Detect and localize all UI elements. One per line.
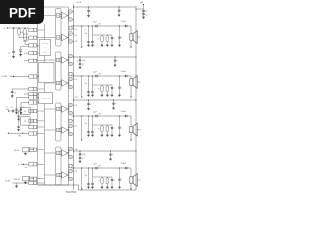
- svg-text:C1: C1: [145, 11, 147, 13]
- svg-text:C: C: [77, 155, 78, 157]
- svg-text:10µ: 10µ: [85, 33, 88, 35]
- capacitor C2: [142, 14, 147, 19]
- svg-text:PROTECTION: PROTECTION: [41, 43, 48, 45]
- supply +V left entry: [3, 27, 14, 30]
- capacitor series 2200uF channel 2: [121, 71, 129, 77]
- svg-text:2.2µF: 2.2µF: [93, 163, 97, 165]
- svg-text:B: B: [58, 175, 59, 177]
- svg-text:C2: C2: [145, 14, 147, 16]
- svg-text:47K: 47K: [74, 79, 77, 81]
- capacitor supply filter channel 2: [77, 56, 86, 68]
- svg-text:47R: 47R: [74, 105, 77, 107]
- op-amp A5 half-bridge: [44, 103, 73, 115]
- feedback drop channel 4: [81, 167, 82, 189]
- op-amp A4 half-bridge: [44, 72, 73, 89]
- svg-text:R: R: [98, 129, 99, 131]
- svg-text:C: C: [85, 30, 86, 32]
- svg-text:C4: C4: [14, 92, 16, 94]
- svg-text:SGN: SGN: [74, 149, 77, 151]
- svg-text:47K: 47K: [74, 29, 77, 31]
- svg-text:2200µF: 2200µF: [121, 71, 126, 73]
- op-amp A3 half-bridge: [44, 54, 73, 66]
- svg-text:C6: C6: [23, 107, 25, 109]
- svg-text:10µF: 10µF: [82, 154, 85, 156]
- svg-text:B: B: [58, 109, 59, 111]
- speaker LS3: [130, 123, 142, 136]
- svg-text:S-GND: S-GND: [5, 181, 11, 183]
- input coupling 1: [17, 107, 33, 120]
- speaker feed channel 4: [130, 168, 131, 190]
- svg-text:C: C: [114, 88, 115, 90]
- IC internal block rect 1: [56, 9, 62, 47]
- svg-text:0.1: 0.1: [82, 158, 84, 160]
- svg-text:IN2: IN2: [19, 136, 22, 138]
- svg-text:F: F: [90, 11, 91, 13]
- svg-text:10µF: 10µF: [82, 60, 85, 62]
- svg-text:C2M: C2M: [98, 74, 101, 76]
- S-GND: [5, 181, 29, 188]
- regulator block: [39, 93, 53, 104]
- svg-text:2.2µF: 2.2µF: [93, 111, 97, 113]
- wire pin stub y53: [24, 52, 29, 54]
- TL/SBR input: [1, 76, 29, 78]
- svg-text:10µ: 10µ: [85, 175, 88, 177]
- IC internal block rect 4: [56, 147, 62, 185]
- page background: [0, 0, 149, 198]
- wire channel 3 supply rail: [74, 99, 137, 101]
- IC internal block rect 3: [56, 103, 62, 141]
- svg-text:DUMP: DUMP: [43, 51, 46, 53]
- op-amp A6 half-bridge: [44, 119, 73, 136]
- svg-text:VCCA: VCCA: [76, 1, 82, 4]
- speaker feed channel 1: [130, 26, 131, 48]
- svg-text:+V: +V: [140, 1, 143, 4]
- capacitor series 2.2uF channel 3: [93, 111, 99, 117]
- feedback drop channel 2: [81, 75, 82, 97]
- resistor R2: [24, 27, 29, 44]
- zobel network channel 1: [85, 25, 115, 46]
- feedback drop channel 1: [81, 25, 82, 47]
- svg-text:B: B: [58, 153, 59, 155]
- capacitor series 2200uF channel 1: [121, 21, 129, 27]
- svg-text:SGN: SGN: [74, 41, 77, 43]
- wire +V to pin CD: [14, 27, 29, 29]
- svg-text:C: C: [114, 128, 115, 130]
- capacitor C5: [11, 98, 29, 114]
- capacitor drop channel 2: [118, 75, 122, 96]
- svg-text:47K: 47K: [74, 126, 77, 128]
- bottom ground rail: [38, 185, 136, 190]
- capacitor series 2200uF channel 4: [121, 163, 129, 169]
- svg-text:F: F: [117, 61, 118, 63]
- capacitor decoupling channel 3: [112, 99, 116, 109]
- pin boxes left edge: [29, 28, 45, 184]
- svg-text:C5: C5: [11, 107, 13, 109]
- op-amp A8 half-bridge: [44, 164, 73, 181]
- wire channel 1 supply rail: [74, 6, 137, 8]
- IC internal mute block: [39, 63, 54, 83]
- capacitor ripple channel 1: [87, 6, 91, 16]
- capacitor decoupling channel 2: [114, 56, 118, 66]
- svg-text:2.2µF: 2.2µF: [93, 21, 97, 23]
- svg-text:47R: 47R: [74, 35, 77, 37]
- zobel network channel 2: [85, 75, 115, 96]
- wire vertical bus right of IC: [73, 5, 75, 191]
- svg-text:GNDLOW: GNDLOW: [14, 179, 21, 181]
- svg-text:10µF: 10µF: [6, 109, 9, 111]
- capacitor series 2.2uF channel 4: [93, 163, 99, 169]
- svg-text:10K: 10K: [25, 167, 28, 169]
- svg-text:C: C: [77, 61, 78, 63]
- svg-text:GNDLOW: GNDLOW: [14, 150, 21, 152]
- svg-text:C: C: [121, 38, 122, 40]
- svg-text:C0L: C0L: [24, 121, 27, 123]
- svg-text:ST-BY: ST-BY: [23, 41, 27, 43]
- svg-text:C7: C7: [6, 107, 8, 109]
- svg-text:R: R: [98, 89, 99, 91]
- svg-text:C: C: [121, 128, 122, 130]
- svg-text:F: F: [90, 104, 91, 106]
- capacitor series 2.2uF channel 1: [93, 21, 99, 27]
- svg-text:C2M: C2M: [98, 24, 101, 26]
- protection block: [39, 40, 50, 56]
- supply +V entry: [135, 1, 144, 9]
- svg-text:C: C: [121, 180, 122, 182]
- input terminal IN2: [8, 133, 29, 138]
- wire channel 3 output line: [71, 115, 131, 117]
- wire channel 4 supply rail: [74, 150, 137, 152]
- svg-text:PW.ON: PW.ON: [23, 34, 28, 36]
- wire pin stub y61: [24, 60, 29, 62]
- capacitor C3: [8, 49, 15, 58]
- svg-text:B: B: [58, 38, 59, 40]
- svg-text:2200µF: 2200µF: [121, 111, 126, 113]
- wire channel 2 supply rail: [74, 56, 137, 58]
- svg-text:2200µF: 2200µF: [121, 163, 126, 165]
- speaker LS2: [130, 76, 142, 89]
- capacitor series 2.2uF channel 2: [93, 71, 99, 77]
- zobel network channel 3: [85, 115, 115, 136]
- svg-text:C: C: [85, 80, 86, 82]
- wire channel 2 output line: [71, 75, 131, 77]
- capacitor drop channel 3: [118, 115, 122, 136]
- capacitor C6: [20, 103, 29, 114]
- svg-text:TL/SBR: TL/SBR: [1, 76, 8, 78]
- svg-text:C0L: C0L: [24, 111, 27, 113]
- svg-text:B: B: [58, 16, 59, 18]
- svg-text:B: B: [58, 60, 59, 62]
- capacitor ripple channel 3: [87, 99, 91, 109]
- svg-text:C2M: C2M: [98, 114, 101, 116]
- svg-text:B: B: [58, 83, 59, 85]
- zobel network channel 4: [85, 167, 115, 188]
- svg-text:C: C: [114, 180, 115, 182]
- wire pin stub y94: [24, 93, 29, 95]
- svg-text:PDF: PDF: [9, 5, 36, 20]
- capacitor decoupling channel 4: [109, 150, 113, 160]
- svg-text:C2M: C2M: [98, 166, 101, 168]
- svg-text:C: C: [85, 172, 86, 174]
- IC outline U1: [38, 7, 69, 185]
- feedback drop channel 3: [81, 115, 82, 140]
- speaker LS4: [130, 174, 142, 187]
- capacitor drop channel 1: [118, 25, 122, 46]
- svg-text:TDA7560: TDA7560: [66, 190, 77, 194]
- resistor R1: [18, 27, 29, 37]
- svg-text:IN: IN: [18, 164, 20, 166]
- pin GND.LOW upper: [14, 148, 34, 155]
- svg-text:2200µF: 2200µF: [121, 21, 126, 23]
- wire +V supply bus far right: [135, 9, 137, 190]
- pin GND.LOW lower: [14, 177, 34, 184]
- input coupling 2: [17, 117, 33, 131]
- svg-text:C: C: [121, 88, 122, 90]
- IC internal block rect 2: [56, 52, 62, 90]
- svg-text:10K: 10K: [21, 32, 24, 34]
- svg-text:F: F: [121, 11, 122, 13]
- svg-text:C: C: [114, 38, 115, 40]
- PDF badge: [0, 0, 44, 24]
- svg-text:2.2µF: 2.2µF: [93, 71, 97, 73]
- input IN1 coupling cap: [6, 107, 21, 113]
- capacitor C1: [142, 9, 147, 14]
- svg-text:R: R: [98, 39, 99, 41]
- svg-text:0.1: 0.1: [82, 64, 84, 66]
- speaker LS1: [130, 31, 142, 44]
- capacitor supply filter channel 4: [77, 150, 86, 162]
- diode D1: [19, 47, 29, 57]
- wire channel 1 output line: [71, 25, 131, 27]
- capacitor drop channel 4: [118, 167, 122, 188]
- capacitor series 2200uF channel 3: [121, 111, 129, 117]
- wire vertical from +V node: [13, 28, 15, 49]
- svg-text:B: B: [58, 130, 59, 132]
- capacitor decoupling channel 1: [118, 6, 122, 16]
- op-amp A2 half-bridge: [44, 27, 73, 44]
- svg-text:C3: C3: [8, 52, 10, 54]
- capacitor C4: [11, 89, 29, 97]
- svg-text:10µ: 10µ: [85, 123, 88, 125]
- wire channel 4 output line: [71, 167, 131, 169]
- svg-text:C: C: [85, 120, 86, 122]
- speaker feed channel 3: [130, 116, 131, 141]
- input terminal IN3: [18, 164, 29, 169]
- svg-text:VCB: VCB: [75, 97, 78, 99]
- svg-text:47R: 47R: [74, 171, 77, 173]
- op-amp A7 half-bridge: [44, 147, 73, 159]
- svg-text:10µ: 10µ: [85, 83, 88, 85]
- svg-text:F: F: [112, 155, 113, 157]
- svg-text:F: F: [115, 104, 116, 106]
- svg-text:R: R: [98, 181, 99, 183]
- op-amp A1 half-bridge: [44, 10, 73, 22]
- speaker feed channel 2: [130, 76, 131, 98]
